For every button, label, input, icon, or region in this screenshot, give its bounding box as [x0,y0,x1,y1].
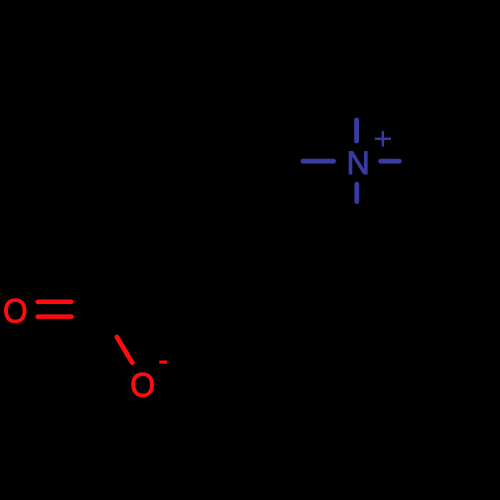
minus charge on O [159,361,167,364]
wire: N-CH2 bond down [354,184,359,202]
svg-text:O: O [3,291,28,330]
plus charge on N: vertical bar [382,131,384,147]
wire: N-CH3 bond left [303,159,334,164]
wire: C-O single bond (to O-) [117,337,132,363]
wire: N-CH3 bond up [354,120,359,141]
wire: C=O double bond lower line [38,314,72,319]
plus charge on N: horizontal bar [375,138,391,140]
svg-text:O: O [130,365,155,403]
wire: C=O double bond upper line [38,300,72,305]
svg-text:N: N [346,145,369,181]
wire: N-CH3 bond right [381,159,400,164]
